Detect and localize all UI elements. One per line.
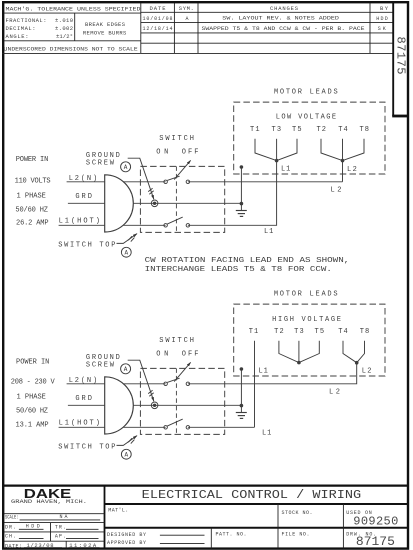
title and part cells bbox=[107, 488, 398, 549]
svg-text:REMOVE BURRS: REMOVE BURRS bbox=[83, 30, 127, 37]
svg-text:FRACTIONAL:: FRACTIONAL: bbox=[6, 17, 47, 24]
lead T8 bbox=[343, 139, 365, 161]
junction node L2 bbox=[355, 361, 359, 365]
junction node T2-T3-T5 bbox=[297, 361, 301, 365]
svg-text:L1: L1 bbox=[262, 430, 271, 438]
svg-text:T2: T2 bbox=[274, 328, 284, 336]
svg-text:T5: T5 bbox=[315, 328, 325, 336]
svg-text:110 VOLTS: 110 VOLTS bbox=[15, 178, 51, 186]
svg-text:CH.: CH. bbox=[5, 534, 16, 540]
svg-text:L2: L2 bbox=[347, 166, 357, 174]
svg-text:ELECTRICAL CONTROL / WIRING: ELECTRICAL CONTROL / WIRING bbox=[142, 488, 362, 502]
svg-text:LOW VOLTAGE: LOW VOLTAGE bbox=[276, 113, 336, 121]
svg-text:L1: L1 bbox=[281, 166, 290, 174]
svg-text:POWER IN: POWER IN bbox=[16, 358, 49, 366]
svg-text:T2: T2 bbox=[316, 126, 326, 134]
svg-text:HDD: HDD bbox=[26, 524, 40, 530]
svg-text:SWAPPED T5 & T8 AND CCW & CW -: SWAPPED T5 & T8 AND CCW & CW - PER B. PA… bbox=[202, 26, 365, 32]
svg-text:T1: T1 bbox=[249, 328, 259, 336]
svg-text:HDD: HDD bbox=[376, 16, 388, 22]
lead T4 bbox=[342, 139, 344, 161]
junction node L2 bbox=[341, 159, 345, 163]
svg-text:26.2 AMP: 26.2 AMP bbox=[16, 220, 49, 228]
svg-text:1 PHASE: 1 PHASE bbox=[17, 393, 46, 401]
svg-text:NA: NA bbox=[60, 514, 68, 520]
lead T3 bbox=[298, 341, 300, 363]
drawing number edge strip 87175 bbox=[392, 2, 407, 116]
svg-text:FILE NO.: FILE NO. bbox=[282, 531, 310, 537]
svg-text:STOCK NO.: STOCK NO. bbox=[282, 510, 313, 516]
svg-text:DATE: DATE bbox=[150, 5, 167, 12]
svg-text:ANGLE:: ANGLE: bbox=[6, 33, 29, 40]
svg-text:SW. LAYOUT REV. & NOTES ADDED: SW. LAYOUT REV. & NOTES ADDED bbox=[222, 16, 339, 22]
svg-text:MACH'G. TOLERANCE UNLESS SPECI: MACH'G. TOLERANCE UNLESS SPECIFIED bbox=[6, 6, 142, 13]
svg-text:±.002: ±.002 bbox=[55, 25, 73, 32]
svg-text:PATT. NO.: PATT. NO. bbox=[216, 531, 247, 537]
svg-text:50/60 HZ: 50/60 HZ bbox=[15, 206, 48, 214]
lead T2 bbox=[321, 139, 343, 161]
wire L1 run bbox=[188, 161, 277, 226]
svg-text:12/18/14: 12/18/14 bbox=[143, 26, 173, 32]
svg-text:SK: SK bbox=[378, 26, 386, 32]
svg-text:T1: T1 bbox=[250, 126, 259, 134]
lead T5 bbox=[277, 139, 297, 161]
svg-text:T3: T3 bbox=[272, 126, 282, 134]
lead T5 bbox=[299, 341, 319, 363]
svg-text:T8: T8 bbox=[360, 328, 370, 336]
svg-text:T3: T3 bbox=[294, 328, 304, 336]
lead T4 bbox=[343, 341, 357, 363]
svg-text:208 - 230 V: 208 - 230 V bbox=[11, 378, 56, 386]
svg-text:TR.: TR. bbox=[55, 524, 66, 530]
wire L2 drop bbox=[343, 363, 357, 384]
wire L2 drop bbox=[342, 161, 344, 182]
svg-text:T4: T4 bbox=[338, 328, 348, 336]
DAKE logo block bbox=[4, 486, 105, 549]
svg-text:50/60 HZ: 50/60 HZ bbox=[16, 408, 48, 416]
svg-text:L1: L1 bbox=[264, 228, 273, 236]
plug and switch assembly bbox=[58, 337, 342, 459]
svg-text:87175: 87175 bbox=[356, 534, 395, 549]
svg-text:±1/2°: ±1/2° bbox=[56, 33, 73, 40]
svg-text:AP.: AP. bbox=[55, 534, 66, 540]
motor leads enclosure (low voltage) bbox=[234, 102, 385, 174]
svg-text:CHANGES: CHANGES bbox=[270, 5, 299, 12]
svg-text:L2: L2 bbox=[362, 368, 372, 376]
lead T1 to L1 bbox=[254, 341, 256, 428]
lead T8 bbox=[357, 341, 365, 363]
svg-text:DECIMAL:: DECIMAL: bbox=[6, 25, 36, 32]
svg-text:1 PHASE: 1 PHASE bbox=[17, 192, 46, 200]
lead T1 bbox=[255, 139, 277, 161]
junction node L1 bbox=[275, 159, 279, 163]
svg-text:87175: 87175 bbox=[394, 37, 408, 75]
title block frame bbox=[2, 486, 408, 549]
svg-text:L1: L1 bbox=[259, 368, 268, 376]
svg-text:MAT'L.: MAT'L. bbox=[108, 508, 128, 514]
svg-text:T4: T4 bbox=[338, 126, 348, 134]
svg-text:T8: T8 bbox=[359, 126, 369, 134]
svg-text:T5: T5 bbox=[292, 126, 302, 134]
svg-text:MOTOR LEADS: MOTOR LEADS bbox=[274, 290, 338, 298]
lead T2 bbox=[279, 341, 299, 363]
svg-text:DESIGNED BY: DESIGNED BY bbox=[107, 532, 146, 538]
svg-text:CW ROTATION FACING LEAD END AS: CW ROTATION FACING LEAD END AS SHOWN, bbox=[145, 257, 350, 265]
svg-text:SYM.: SYM. bbox=[179, 5, 194, 12]
plug and switch assembly bbox=[58, 135, 342, 257]
svg-text:DATE:: DATE: bbox=[5, 543, 22, 549]
svg-text:SCALE:: SCALE: bbox=[5, 515, 19, 521]
svg-text:POWER IN: POWER IN bbox=[16, 156, 49, 164]
svg-text:INTERCHANGE LEADS T5 & T8 FOR: INTERCHANGE LEADS T5 & T8 FOR CCW. bbox=[145, 266, 332, 274]
svg-text:909250: 909250 bbox=[353, 515, 398, 529]
svg-text:±.010: ±.010 bbox=[55, 17, 73, 24]
svg-text:A: A bbox=[185, 16, 188, 22]
svg-text:10/01/08: 10/01/08 bbox=[143, 16, 173, 22]
wire L1 run bbox=[188, 426, 255, 428]
svg-text:MOTOR LEADS: MOTOR LEADS bbox=[274, 88, 338, 96]
svg-text:BY: BY bbox=[380, 5, 389, 12]
svg-text:GRAND HAVEN, MICH.: GRAND HAVEN, MICH. bbox=[11, 499, 87, 505]
motor leads enclosure (high voltage) bbox=[234, 304, 385, 376]
svg-text:UNDERSCORED DIMENSIONS NOT TO: UNDERSCORED DIMENSIONS NOT TO SCALE bbox=[4, 45, 139, 52]
lead T3 bbox=[276, 139, 278, 161]
svg-text:DR.: DR. bbox=[5, 524, 16, 530]
svg-text:BREAK EDGES: BREAK EDGES bbox=[85, 21, 126, 28]
revision table bbox=[141, 3, 393, 53]
tolerance box bbox=[2, 3, 141, 53]
svg-text:13.1 AMP: 13.1 AMP bbox=[15, 421, 48, 429]
svg-text:APPROVED BY: APPROVED BY bbox=[107, 540, 146, 546]
